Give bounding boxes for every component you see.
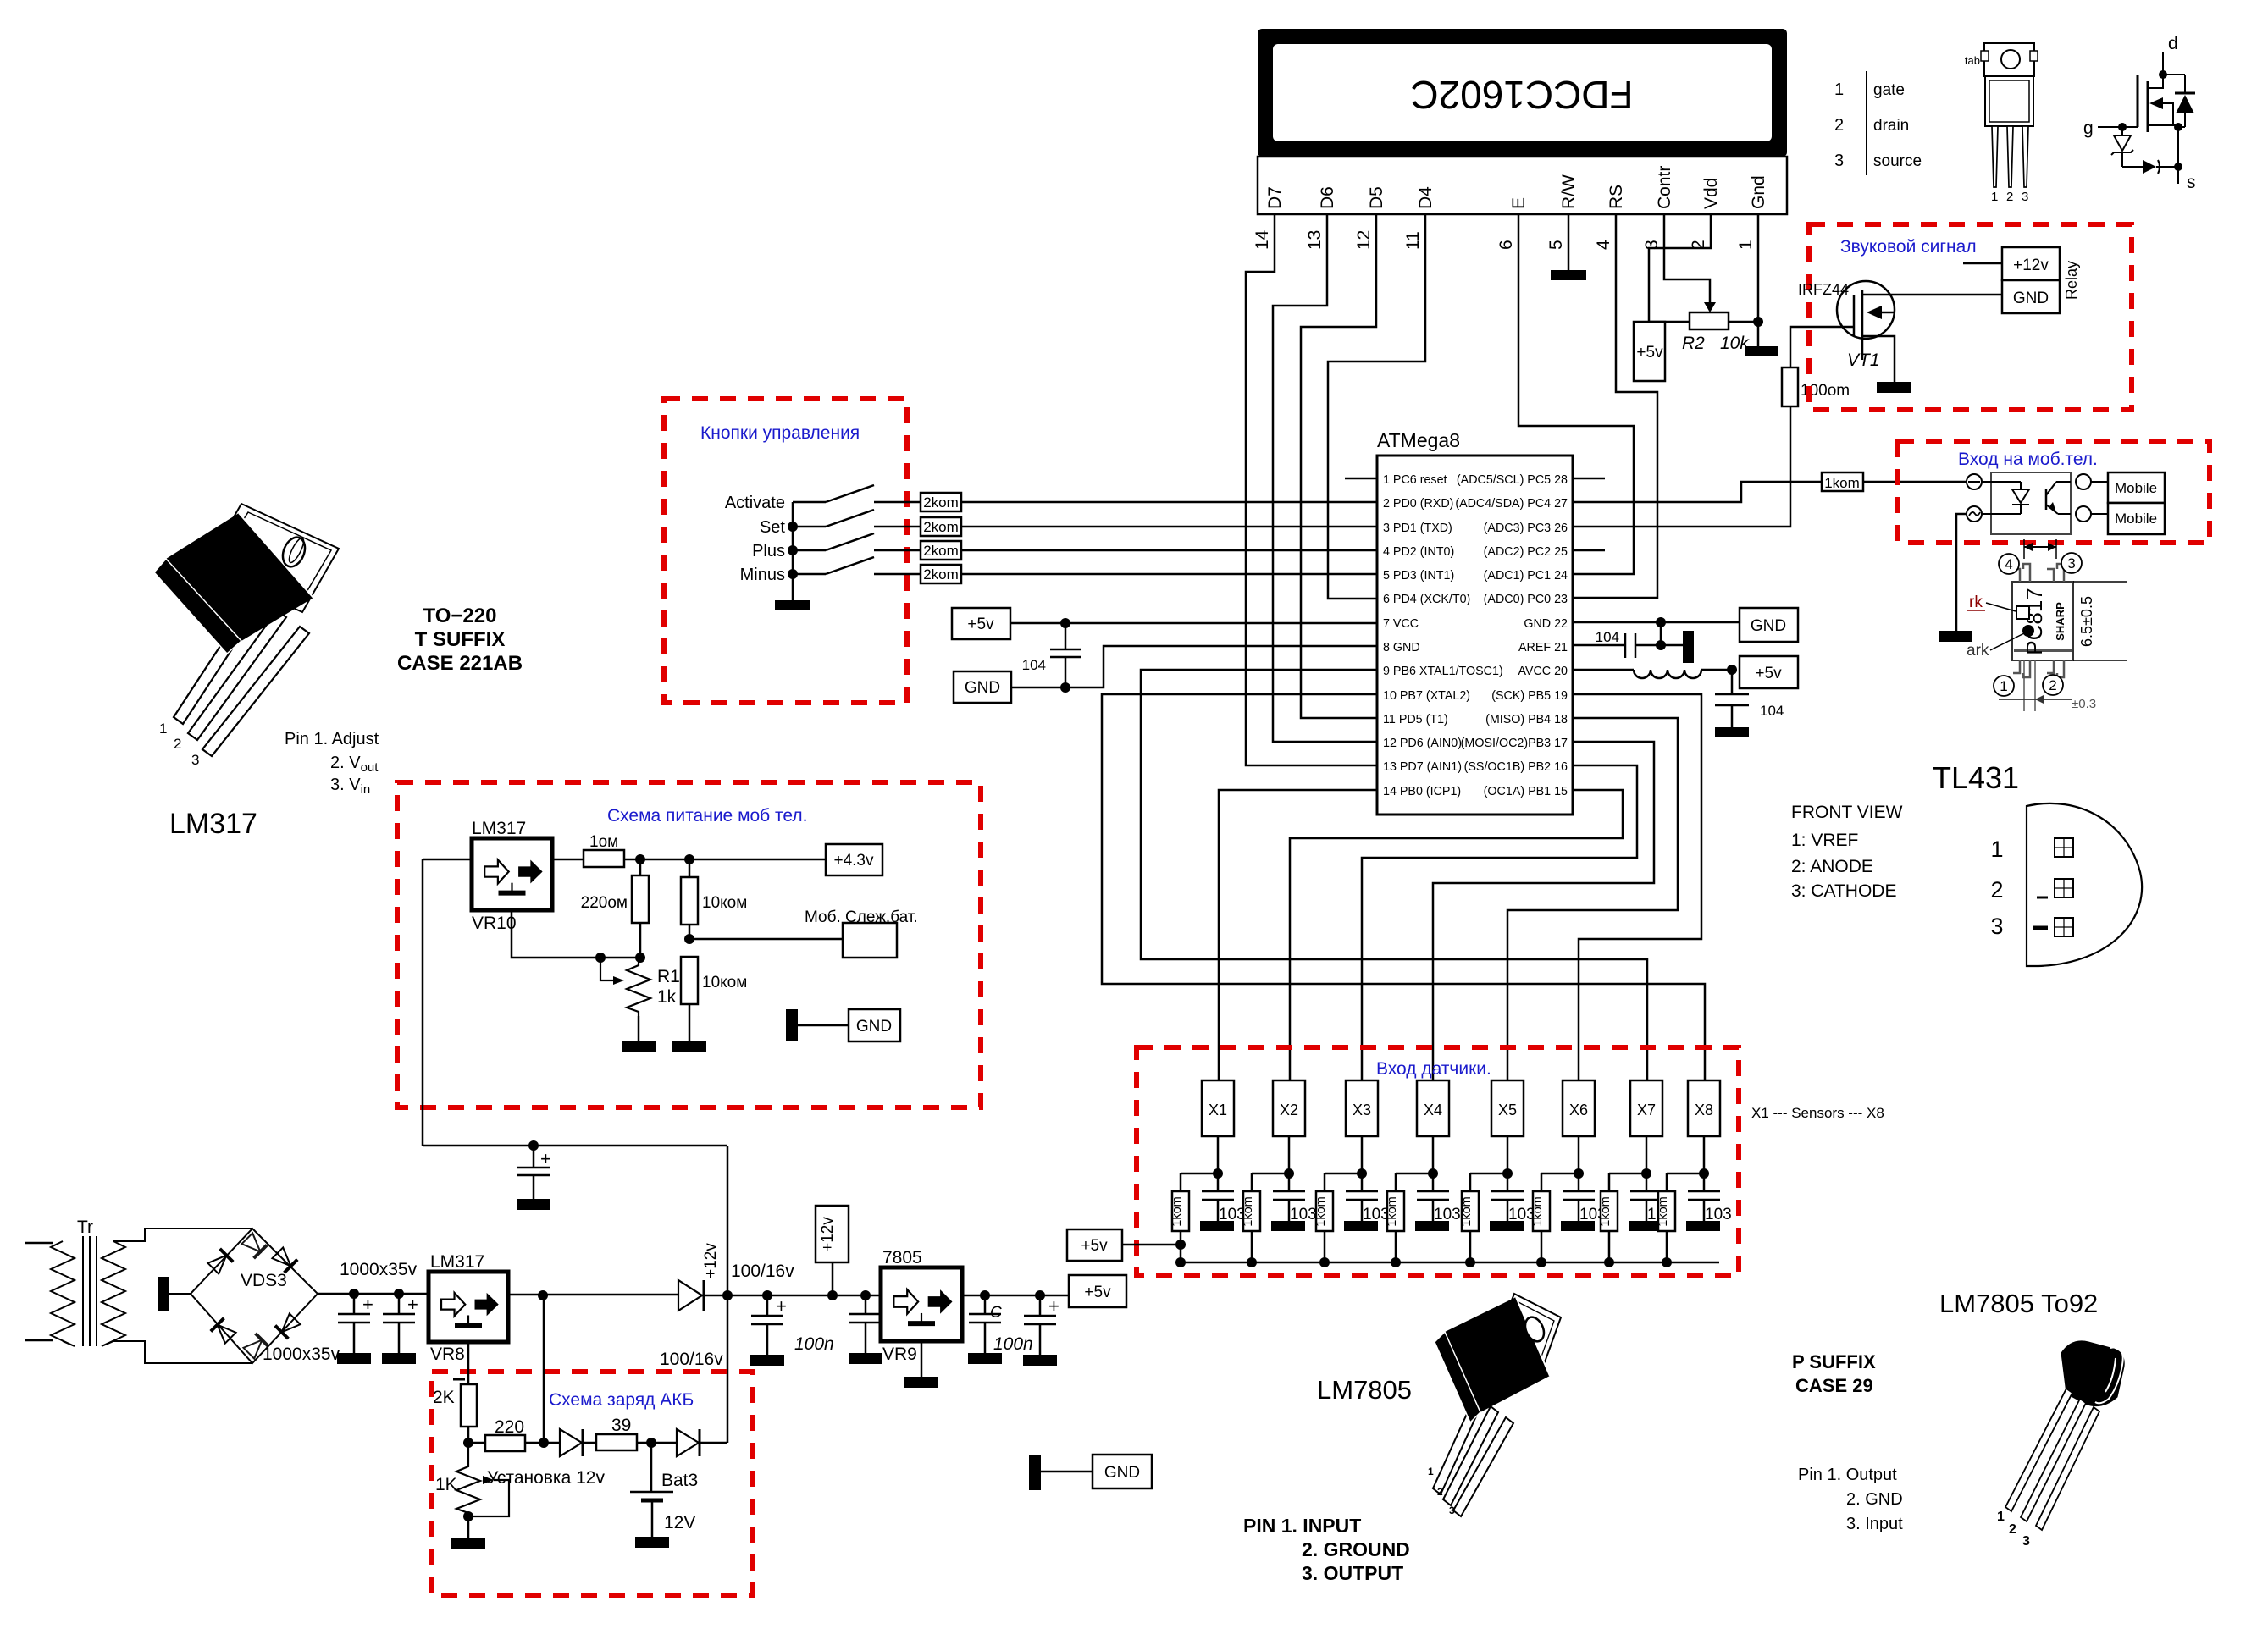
svg-text:103: 103 [1705,1206,1732,1223]
svg-text:E: E [1509,197,1529,209]
svg-text:1 PC6 reset: 1 PC6 reset [1383,473,1447,487]
svg-text:1: 1 [1834,80,1844,99]
svg-text:X1 --- Sensors --- X8: X1 --- Sensors --- X8 [1751,1105,1884,1121]
svg-text:ark: ark [1967,642,1989,660]
svg-text:Tr: Tr [77,1218,93,1237]
svg-text:T SUFFIX: T SUFFIX [415,628,506,651]
svg-text:3: 3 [1449,1505,1455,1516]
svg-text:2kom: 2kom [923,494,959,511]
svg-text:1: 1 [1736,240,1756,250]
svg-text:(MOSI/OC2)PB3 17: (MOSI/OC2)PB3 17 [1461,737,1568,750]
svg-text:+12v: +12v [2013,257,2049,274]
svg-text:1kom: 1kom [1460,1196,1474,1226]
svg-text:R2: R2 [1682,334,1705,353]
svg-text:13: 13 [1305,230,1325,250]
svg-text:2. GND: 2. GND [1846,1490,1903,1509]
svg-text:Set: Set [760,518,785,537]
svg-text:d: d [2168,34,2178,53]
svg-text:VT1: VT1 [1847,351,1880,370]
svg-text:P SUFFIX: P SUFFIX [1792,1351,1876,1372]
svg-text:100/16v: 100/16v [660,1350,723,1369]
svg-text:39: 39 [611,1416,631,1435]
svg-text:gate: gate [1873,81,1905,99]
svg-text:14: 14 [1253,229,1272,250]
svg-text:+5v: +5v [1636,344,1663,362]
svg-text:+5v: +5v [967,616,994,633]
svg-text:1kom: 1kom [1242,1196,1255,1226]
svg-text:1000x35v: 1000x35v [340,1260,418,1279]
svg-text:LM7805: LM7805 [1317,1375,1412,1405]
svg-text:g: g [2083,119,2094,138]
svg-text:LM317: LM317 [472,819,526,838]
svg-text:2. GROUND: 2. GROUND [1302,1538,1410,1560]
svg-text:+: + [1048,1295,1059,1317]
svg-text:104: 104 [1596,629,1619,645]
svg-text:2: ANODE: 2: ANODE [1791,857,1873,876]
svg-text:VDS3: VDS3 [241,1271,287,1290]
svg-text:PC817: PC817 [2022,588,2047,655]
svg-text:104: 104 [1760,703,1784,719]
svg-text:(ADC2) PC2 25: (ADC2) PC2 25 [1484,545,1568,559]
svg-text:1: VREF: 1: VREF [1791,831,1858,850]
svg-text:2: 2 [1834,116,1844,135]
svg-text:X3: X3 [1353,1102,1371,1118]
svg-text:Vdd: Vdd [1701,178,1721,209]
svg-text:FRONT VIEW: FRONT VIEW [1791,803,1903,822]
svg-text:rk: rk [1969,594,1983,611]
svg-text:X2: X2 [1280,1102,1298,1118]
svg-text:+5v: +5v [1081,1237,1108,1255]
svg-text:3: 3 [2022,1534,2030,1549]
svg-text:GND: GND [2013,290,2049,307]
svg-text:3: CATHODE: 3: CATHODE [1791,881,1896,901]
svg-text:source: source [1873,152,1922,170]
svg-text:220: 220 [495,1417,524,1437]
svg-text:CASE 29: CASE 29 [1795,1375,1873,1396]
svg-text:6: 6 [1496,240,1516,250]
svg-text:(ADC3) PC3 26: (ADC3) PC3 26 [1484,522,1568,535]
svg-text:1: 1 [1990,837,2003,862]
svg-text:tab: tab [1965,54,1980,67]
svg-text:(SCK) PB5 19: (SCK) PB5 19 [1491,689,1568,703]
svg-text:1: 1 [2000,678,2007,694]
svg-text:Схема заряд АКБ: Схема заряд АКБ [549,1390,694,1410]
svg-text:D5: D5 [1367,186,1386,209]
svg-text:GND: GND [1104,1464,1140,1482]
svg-text:LM317: LM317 [430,1252,484,1272]
svg-text:10ком: 10ком [702,894,747,912]
svg-text:+5v: +5v [1084,1284,1111,1301]
svg-text:1kom: 1kom [1599,1196,1612,1226]
svg-text:+5v: +5v [1755,665,1782,682]
svg-text:Кнопки управления: Кнопки управления [700,423,860,443]
svg-text:2: 2 [1437,1486,1443,1498]
svg-text:s: s [2187,173,2196,192]
svg-text:1k: 1k [657,987,677,1007]
svg-text:1: 1 [1428,1466,1434,1477]
svg-text:2 PD0 (RXD): 2 PD0 (RXD) [1383,497,1453,511]
svg-text:2K: 2K [433,1388,455,1407]
svg-text:D4: D4 [1416,186,1435,209]
svg-text:X4: X4 [1424,1102,1442,1118]
svg-text:RS: RS [1607,185,1626,209]
svg-text:GND: GND [965,679,1000,697]
svg-text:+12v: +12v [819,1217,837,1252]
svg-text:+: + [776,1295,787,1317]
svg-text:3: 3 [1834,152,1844,170]
svg-text:(MISO) PB4 18: (MISO) PB4 18 [1485,713,1568,726]
svg-text:1: 1 [1991,190,1998,204]
svg-text:Схема питание моб тел.: Схема питание моб тел. [607,806,808,826]
svg-text:+: + [540,1148,551,1169]
svg-text:3: 3 [191,752,199,768]
svg-text:2: 2 [2006,190,2013,204]
svg-text:AVCC 20: AVCC 20 [1518,665,1568,678]
svg-text:TL431: TL431 [1933,760,2019,795]
svg-text:10 PB7 (XTAL2): 10 PB7 (XTAL2) [1383,689,1470,703]
svg-text:9 PB6 XTAL1/TOSC1): 9 PB6 XTAL1/TOSC1) [1383,665,1503,678]
svg-text:+4.3v: +4.3v [833,852,874,870]
svg-text:FDCC1602C: FDCC1602C [1410,73,1633,117]
svg-text:4: 4 [2005,556,2012,572]
svg-text:+: + [362,1294,373,1315]
svg-text:(SS/OC1B) PB2 16: (SS/OC1B) PB2 16 [1464,760,1568,774]
svg-text:7 VCC: 7 VCC [1383,617,1419,631]
svg-text:drain: drain [1873,117,1909,135]
svg-text:Minus: Minus [740,566,785,584]
svg-text:1kom: 1kom [1824,475,1860,491]
svg-text:4: 4 [1594,240,1613,250]
svg-text:Plus: Plus [752,542,785,560]
svg-text:2kom: 2kom [923,566,959,583]
svg-text:8 GND: 8 GND [1383,641,1420,654]
svg-text:TO−220: TO−220 [423,605,497,627]
svg-text:2: 2 [2009,1522,2016,1537]
svg-text:100/16v: 100/16v [731,1262,794,1281]
svg-text:2: 2 [174,736,181,752]
svg-text:Звуковой сигнал: Звуковой сигнал [1840,237,1977,257]
svg-text:(ADC4/SDA) PC4 27: (ADC4/SDA) PC4 27 [1455,497,1568,511]
svg-text:220ом: 220ом [581,894,628,912]
svg-text:3 PD1 (TXD): 3 PD1 (TXD) [1383,522,1452,535]
svg-text:Relay: Relay [2063,261,2080,300]
svg-text:4 PD2 (INT0): 4 PD2 (INT0) [1383,545,1454,559]
svg-text:12: 12 [1354,230,1374,250]
svg-text:10ком: 10ком [702,974,747,991]
svg-text:104: 104 [1022,657,1046,673]
svg-text:LM317: LM317 [169,808,257,840]
svg-text:1000x35v: 1000x35v [263,1345,340,1364]
svg-text:1: 1 [159,721,167,737]
svg-text:100n: 100n [993,1334,1033,1354]
svg-text:14 PB0 (ICP1): 14 PB0 (ICP1) [1383,785,1461,798]
svg-text:3: 3 [2067,555,2075,572]
svg-text:X6: X6 [1569,1102,1588,1118]
svg-text:11: 11 [1403,231,1423,250]
svg-text:CASE 221AB: CASE 221AB [397,652,523,675]
svg-text:3: 3 [2022,190,2028,204]
svg-text:GND: GND [1751,617,1786,635]
svg-text:R1: R1 [657,967,680,986]
svg-text:12 PD6 (AIN0): 12 PD6 (AIN0) [1383,737,1462,750]
svg-text:6 PD4 (XCK/T0): 6 PD4 (XCK/T0) [1383,593,1470,606]
svg-text:ATMega8: ATMega8 [1377,429,1460,451]
svg-text:12V: 12V [664,1513,695,1532]
svg-text:±0.3: ±0.3 [2072,697,2096,711]
svg-text:AREF 21: AREF 21 [1518,641,1568,654]
svg-text:X7: X7 [1637,1102,1656,1118]
svg-text:+12v: +12v [702,1243,720,1278]
svg-text:C: C [990,1304,1002,1322]
svg-text:2kom: 2kom [923,543,959,559]
svg-text:2: 2 [2049,677,2056,693]
svg-text:3. OUTPUT: 3. OUTPUT [1302,1562,1403,1584]
svg-text:100n: 100n [794,1334,834,1354]
svg-text:GND 22: GND 22 [1524,617,1568,631]
svg-text:2kom: 2kom [923,519,959,535]
svg-text:1kom: 1kom [1386,1196,1399,1226]
svg-text:Pin 1. Adjust: Pin 1. Adjust [285,730,379,748]
svg-text:SHARP: SHARP [2054,602,2066,641]
svg-text:1kom: 1kom [1170,1196,1184,1226]
svg-text:(ADC1) PC1 24: (ADC1) PC1 24 [1484,569,1568,583]
svg-text:7805: 7805 [882,1248,922,1267]
svg-text:VR10: VR10 [472,914,517,933]
svg-text:2: 2 [1990,877,2003,903]
svg-text:11 PD5 (T1): 11 PD5 (T1) [1383,713,1448,726]
svg-text:(ADC5/SCL) PC5 28: (ADC5/SCL) PC5 28 [1457,473,1568,487]
svg-text:103: 103 [1434,1206,1461,1223]
svg-text:5: 5 [1546,240,1566,250]
svg-text:Pin 1. Output: Pin 1. Output [1798,1466,1897,1484]
svg-text:(ADC0) PC0 23: (ADC0) PC0 23 [1484,593,1568,606]
svg-text:Mobile: Mobile [2115,511,2157,527]
svg-text:R/W: R/W [1559,174,1579,209]
svg-text:Gnd: Gnd [1749,175,1768,209]
svg-text:5 PD3 (INT1): 5 PD3 (INT1) [1383,569,1454,583]
svg-text:D6: D6 [1318,186,1337,209]
svg-text:3: 3 [1990,914,2003,939]
svg-text:GND: GND [856,1018,892,1035]
svg-text:Вход на моб.тел.: Вход на моб.тел. [1958,450,2098,469]
svg-text:1: 1 [1997,1510,2005,1524]
svg-text:13 PD7 (AIN1): 13 PD7 (AIN1) [1383,760,1462,774]
svg-text:X1: X1 [1209,1102,1227,1118]
svg-text:1kom: 1kom [1657,1196,1670,1226]
svg-text:D7: D7 [1265,186,1285,209]
svg-text:1kom: 1kom [1314,1196,1328,1226]
svg-text:+: + [407,1294,418,1315]
svg-text:Contr: Contr [1655,166,1674,209]
svg-text:PIN 1. INPUT: PIN 1. INPUT [1243,1515,1361,1537]
svg-text:Mobile: Mobile [2115,480,2157,496]
svg-text:1kom: 1kom [1531,1196,1545,1226]
svg-text:X8: X8 [1695,1102,1713,1118]
svg-text:1K: 1K [435,1475,457,1494]
svg-text:(OC1A) PB1 15: (OC1A) PB1 15 [1484,785,1568,798]
svg-text:Bat3: Bat3 [661,1471,698,1490]
svg-text:X5: X5 [1498,1102,1517,1118]
svg-text:1ом: 1ом [589,833,618,851]
svg-text:VR9: VR9 [882,1345,917,1364]
svg-text:Установка 12v: Установка 12v [487,1468,605,1488]
svg-text:6.5±0.5: 6.5±0.5 [2078,596,2095,647]
svg-text:3. Input: 3. Input [1846,1515,1903,1533]
svg-text:VR8: VR8 [430,1345,465,1364]
svg-text:Activate: Activate [725,494,785,512]
svg-text:103: 103 [1290,1206,1317,1223]
svg-text:LM7805 To92: LM7805 To92 [1939,1289,2098,1318]
svg-text:Вход датчики.: Вход датчики. [1376,1059,1491,1079]
